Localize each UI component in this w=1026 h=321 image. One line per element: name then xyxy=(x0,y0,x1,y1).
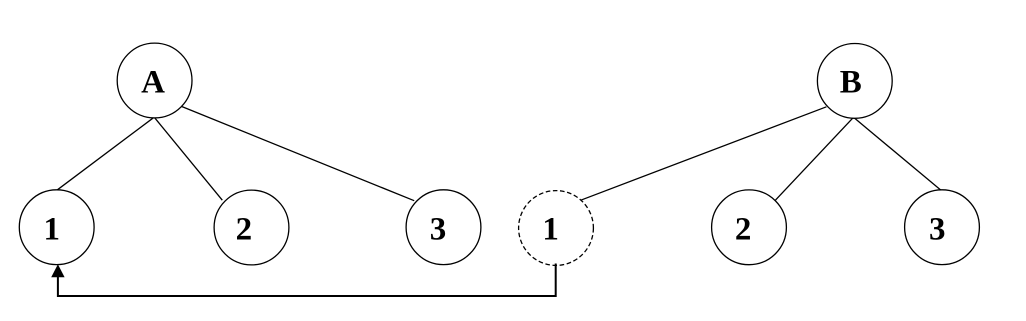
wire: edge A to child 1 xyxy=(57,117,154,190)
node 3: left tree child circle xyxy=(406,190,481,265)
wire: edge B to child 2 xyxy=(775,117,853,200)
wire: edge A to child 2 xyxy=(154,117,222,200)
svg-text:3: 3 xyxy=(430,212,447,248)
wire: arrow connector from dashed node 1 down, left, and up to node 1 xyxy=(58,264,556,297)
node 1: left tree child circle xyxy=(19,190,94,265)
arrowhead pointing up at node 1 xyxy=(51,264,64,277)
node A: root circle of left tree xyxy=(117,43,192,118)
svg-text:2: 2 xyxy=(236,211,253,247)
node 2: left tree child circle xyxy=(214,190,289,265)
svg-text:1: 1 xyxy=(542,212,559,248)
node B: root circle of right tree xyxy=(817,44,892,119)
node 3 right: right tree child circle xyxy=(905,190,980,265)
svg-text:1: 1 xyxy=(43,212,60,248)
node 2 right: right tree child circle xyxy=(712,190,787,265)
wire: edge B to child 3 xyxy=(854,117,941,190)
svg-text:A: A xyxy=(141,65,165,101)
node 1 dashed: moved child circle under B xyxy=(519,191,594,266)
svg-text:B: B xyxy=(840,64,862,100)
wire: edge B to dashed child 1 xyxy=(581,107,827,200)
svg-text:3: 3 xyxy=(929,212,946,248)
wire: edge A to child 3 xyxy=(181,106,415,201)
svg-text:2: 2 xyxy=(735,211,752,247)
